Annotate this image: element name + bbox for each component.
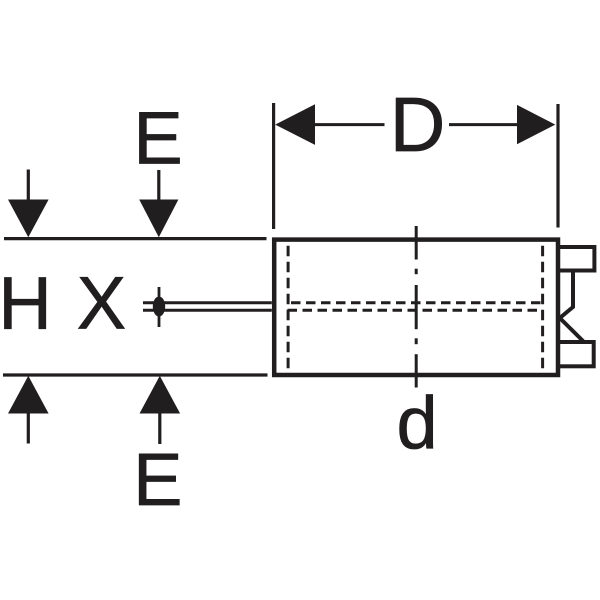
- svg-text:X: X: [77, 262, 126, 345]
- svg-text:d: d: [397, 382, 438, 465]
- svg-text:E: E: [133, 438, 182, 521]
- svg-text:D: D: [390, 82, 446, 168]
- svg-text:H: H: [0, 262, 52, 345]
- svg-text:E: E: [133, 96, 182, 179]
